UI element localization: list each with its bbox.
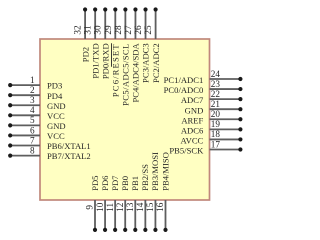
pin 16 (PB4/MISO) wire — [163, 200, 167, 232]
pin 2 (PD4) wire — [8, 93, 40, 97]
pin 29 (PC6/RESET) wire — [113, 7, 117, 39]
svg-text:PB4/MISO: PB4/MISO — [160, 152, 170, 191]
svg-text:PB2/SS: PB2/SS — [140, 164, 150, 191]
svg-text:PC5/ADC5/SCL: PC5/ADC5/SCL — [121, 43, 131, 106]
svg-text:AREF: AREF — [181, 115, 203, 125]
svg-text:PC3/ADC3: PC3/ADC3 — [141, 43, 151, 83]
pin 3 (GND) wire — [8, 103, 40, 107]
pin 7 (PB6/XTAL1) wire — [8, 143, 40, 147]
svg-text:PC0/ADC0: PC0/ADC0 — [164, 85, 204, 95]
svg-text:1: 1 — [30, 75, 35, 85]
svg-text:3: 3 — [30, 95, 35, 105]
svg-text:5: 5 — [30, 115, 35, 125]
svg-text:PD3: PD3 — [47, 81, 62, 91]
pin 29 name PC6/RESET — [111, 43, 121, 97]
pin 24 (PC1/ADC1) wire — [210, 77, 243, 81]
pin 17 (PB5/SCK) wire — [210, 147, 243, 151]
pin 23 (PC0/ADC0) wire — [210, 87, 243, 91]
IC body U? (ATmega8 TQFP32 outline) — [40, 39, 210, 200]
svg-text:ADC6: ADC6 — [181, 125, 204, 135]
svg-text:PB1: PB1 — [130, 176, 140, 191]
svg-text:PD6: PD6 — [100, 175, 110, 191]
svg-text:6: 6 — [30, 125, 35, 135]
svg-text:PD4: PD4 — [47, 91, 63, 101]
svg-text:30: 30 — [93, 25, 103, 35]
svg-text:VCC: VCC — [47, 111, 65, 121]
pin 10 (PD6) wire — [103, 200, 107, 232]
svg-text:PC6/RESET: PC6/RESET — [111, 43, 121, 97]
svg-text:PC1/ADC1: PC1/ADC1 — [164, 75, 204, 85]
svg-text:18: 18 — [211, 129, 221, 139]
svg-text:14: 14 — [135, 202, 145, 212]
svg-text:AVCC: AVCC — [181, 136, 204, 146]
svg-text:ADC7: ADC7 — [181, 95, 204, 105]
svg-text:9: 9 — [85, 205, 95, 210]
svg-text:27: 27 — [123, 25, 133, 35]
pin 12 (PB0) wire — [123, 200, 127, 232]
pin 25 (PC2/ADC2) wire — [153, 7, 157, 39]
pin 11 (PD7) wire — [113, 200, 117, 232]
svg-text:19: 19 — [211, 119, 221, 129]
svg-text:4: 4 — [30, 105, 35, 115]
svg-text:PB7/XTAL2: PB7/XTAL2 — [47, 151, 91, 161]
pin 18 (AVCC) wire — [210, 137, 243, 141]
svg-text:PB0: PB0 — [120, 176, 130, 191]
svg-text:PD7: PD7 — [110, 175, 120, 191]
pin 6 (VCC) wire — [8, 133, 40, 137]
svg-text:25: 25 — [143, 25, 153, 35]
svg-text:31: 31 — [83, 25, 93, 35]
pin 31 (PD1/TXD) wire — [93, 7, 97, 39]
pin 28 (PC5/ADC5/SCL) wire — [123, 7, 127, 39]
svg-text:PD5: PD5 — [90, 176, 100, 191]
svg-text:8: 8 — [30, 145, 35, 155]
svg-text:PD2: PD2 — [80, 47, 90, 62]
pin 20 (AREF) wire — [210, 117, 243, 121]
svg-text:22: 22 — [211, 89, 221, 99]
svg-text:GND: GND — [47, 121, 66, 131]
svg-text:PC4/ADC4/SDA: PC4/ADC4/SDA — [131, 43, 141, 103]
svg-text:28: 28 — [113, 25, 123, 35]
pin 21 (GND) wire — [210, 107, 243, 111]
pin 19 (ADC6) wire — [210, 127, 243, 131]
svg-text:12: 12 — [115, 202, 125, 212]
svg-text:26: 26 — [133, 25, 143, 35]
svg-text:2: 2 — [30, 85, 35, 95]
svg-text:23: 23 — [211, 79, 221, 89]
svg-text:GND: GND — [47, 101, 66, 111]
pin 27 (PC4/ADC4/SDA) wire — [133, 7, 137, 39]
pin 1 (PD3) wire — [8, 83, 40, 87]
svg-text:16: 16 — [155, 202, 165, 212]
svg-text:VCC: VCC — [47, 131, 65, 141]
pin 9 (PD5) wire — [93, 200, 97, 232]
svg-text:PB3/MOSI: PB3/MOSI — [150, 152, 160, 191]
pin 4 (VCC) wire — [8, 113, 40, 117]
svg-text:20: 20 — [211, 109, 221, 119]
pin 30 (PD0/RXD) wire — [103, 7, 107, 39]
svg-text:32: 32 — [73, 25, 83, 35]
pin 15 (PB3/MOSI) wire — [153, 200, 157, 232]
pin 22 (ADC7) wire — [210, 97, 243, 101]
pin 13 (PB1) wire — [133, 200, 137, 232]
svg-text:21: 21 — [211, 99, 221, 109]
pin 8 (PB7/XTAL2) wire — [8, 153, 40, 157]
pin 26 (PC3/ADC3) wire — [143, 7, 147, 39]
svg-text:PC2/ADC2: PC2/ADC2 — [151, 43, 161, 83]
svg-text:7: 7 — [30, 135, 35, 145]
svg-text:15: 15 — [145, 202, 155, 212]
pin 5 (GND) wire — [8, 123, 40, 127]
pin 32 (PD2) wire — [83, 7, 87, 39]
svg-text:PB6/XTAL1: PB6/XTAL1 — [47, 141, 91, 151]
pin 14 (PB2/SS) wire — [143, 200, 147, 232]
svg-text:PD1/TXD: PD1/TXD — [90, 43, 100, 78]
svg-text:10: 10 — [95, 202, 105, 212]
svg-text:11: 11 — [105, 202, 115, 211]
svg-text:24: 24 — [211, 69, 221, 79]
svg-text:13: 13 — [125, 202, 135, 212]
svg-text:PD0/RXD: PD0/RXD — [100, 43, 110, 79]
svg-text:17: 17 — [211, 139, 221, 149]
svg-text:29: 29 — [103, 25, 113, 35]
svg-text:PB5/SCK: PB5/SCK — [169, 146, 204, 156]
svg-text:GND: GND — [185, 105, 204, 115]
